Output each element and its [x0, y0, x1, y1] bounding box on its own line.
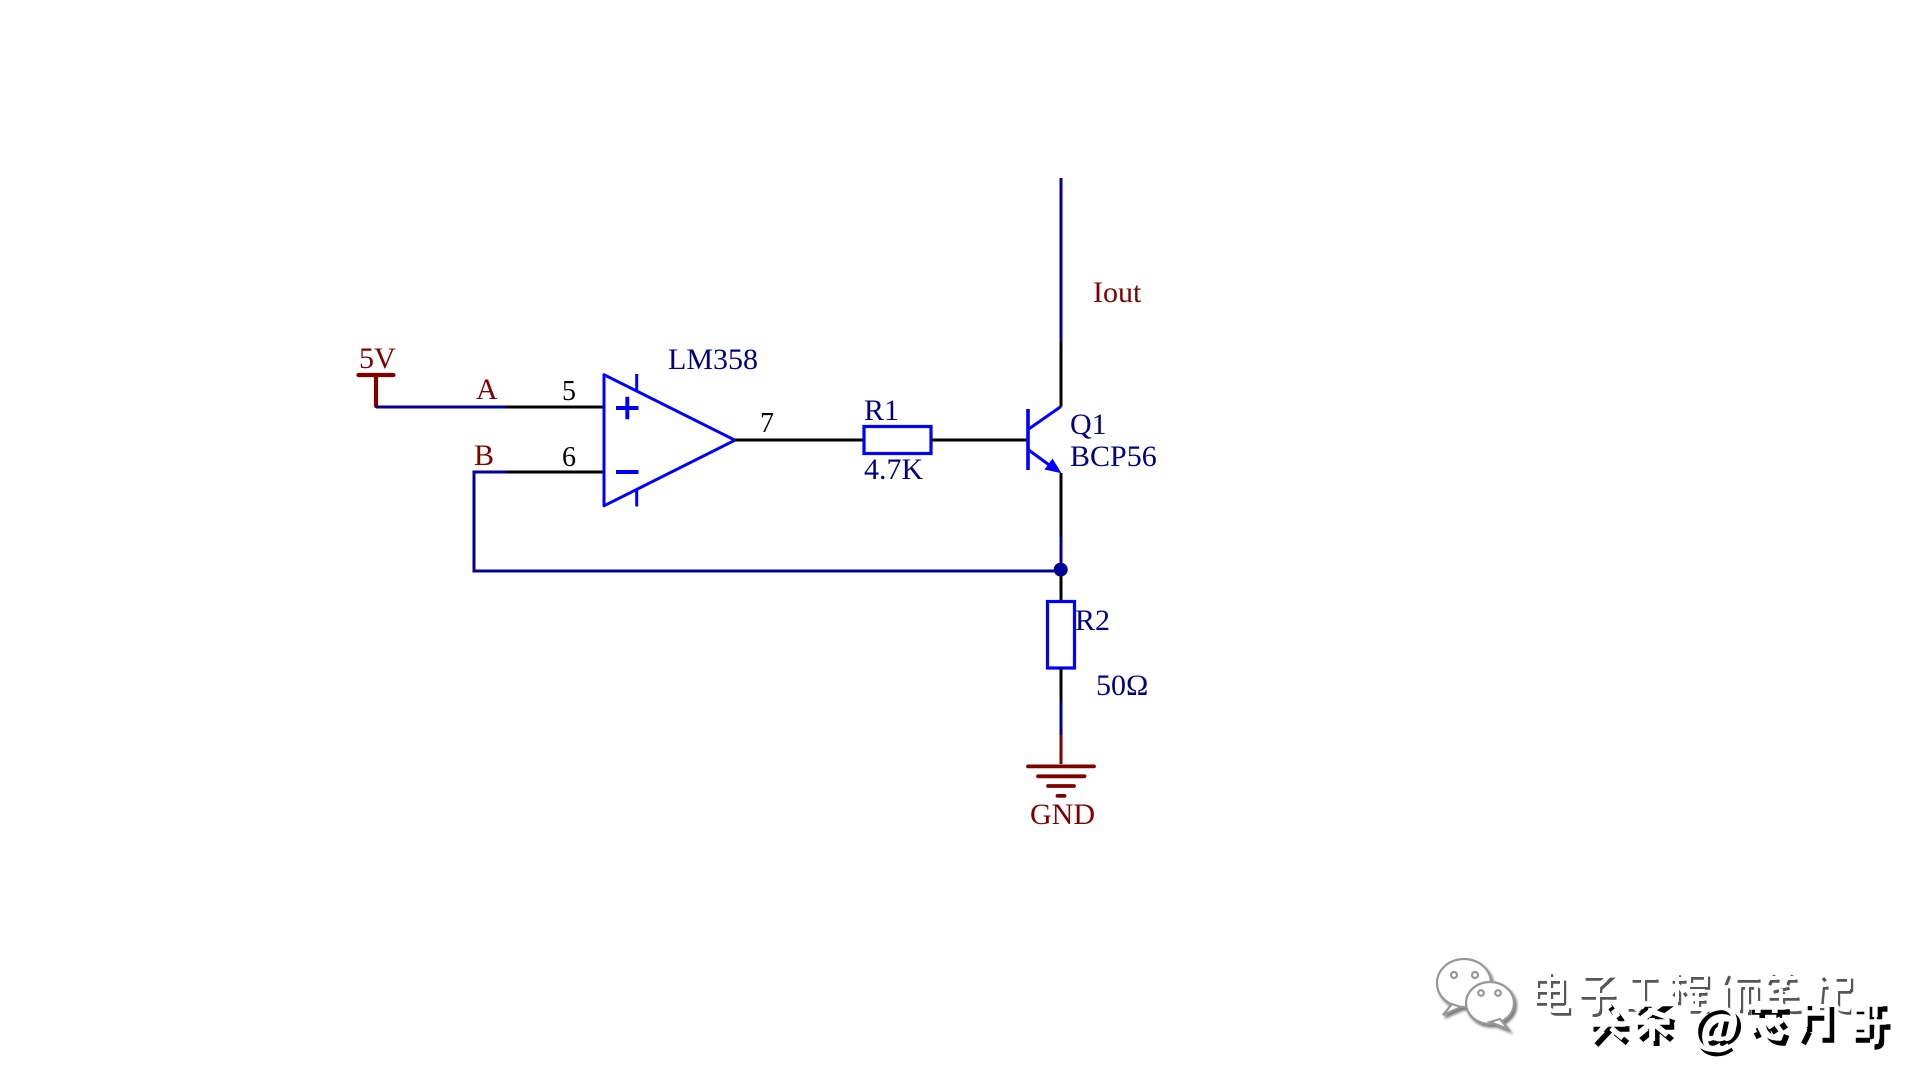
wire pin 6 (black part) [506, 471, 604, 474]
wire net B / feedback loop (navy) [474, 472, 1061, 571]
wire pin 5 (black part) [506, 406, 604, 409]
watermark wechat icon [1437, 959, 1514, 1029]
Q1 emitter arrowhead [1045, 459, 1062, 474]
wire segment to ground (dark red) [1060, 735, 1063, 764]
svg-text:LM358: LM358 [668, 343, 758, 376]
junction node dot [1054, 563, 1068, 577]
resistor R2 body [1048, 602, 1075, 669]
svg-text:Iout: Iout [1093, 276, 1142, 309]
svg-text:Q1: Q1 [1070, 408, 1107, 441]
svg-text:50Ω: 50Ω [1096, 669, 1148, 702]
op-amp bottom power tick [635, 489, 638, 507]
wire emitter to junction (navy) [1060, 537, 1063, 570]
small bubble [1466, 982, 1514, 1024]
ground symbol [1028, 766, 1094, 796]
wire net A (navy part) [376, 406, 506, 409]
svg-text:BCP56: BCP56 [1070, 440, 1157, 473]
small bubble eyes [1478, 990, 1484, 996]
svg-text:R2: R2 [1075, 604, 1110, 637]
op-amp U1 LM358 triangle [604, 375, 735, 506]
wire collector (black) [1060, 342, 1063, 407]
wire R1 to Q1 base [931, 439, 1027, 442]
svg-text:6: 6 [562, 442, 576, 473]
big bubble [1437, 959, 1491, 1007]
wire Iout (navy) [1060, 178, 1063, 342]
svg-text:5V: 5V [359, 342, 396, 375]
svg-text:@: @ [1691, 996, 1739, 1053]
svg-text:7: 7 [760, 408, 774, 439]
watermark text1 shadow 电子工程师笔记 [1539, 974, 1854, 1015]
op-amp top power tick [635, 374, 638, 392]
power symbol 5V [359, 375, 394, 406]
svg-text:4.7K: 4.7K [864, 453, 924, 486]
wire segment (navy) [1060, 702, 1063, 735]
wire emitter down (black) [1060, 473, 1063, 537]
watermark text1 white 电子工程师笔记 [1536, 971, 1851, 1012]
resistor R1 body [864, 427, 931, 454]
svg-text:R1: R1 [864, 394, 899, 427]
svg-text:GND: GND [1030, 798, 1095, 831]
wire op-amp output pin 7 [735, 439, 864, 442]
transistor Q1 symbol [1028, 407, 1061, 471]
svg-text:5: 5 [562, 376, 576, 407]
wire R2 to ground (black) [1060, 668, 1063, 702]
svg-text:B: B [474, 439, 494, 472]
big bubble eyes [1451, 972, 1457, 978]
op-amp minus sign [616, 470, 639, 474]
wire junction to R2 (black) [1060, 576, 1063, 602]
svg-text:A: A [476, 373, 498, 406]
op-amp plus sign [616, 397, 639, 419]
